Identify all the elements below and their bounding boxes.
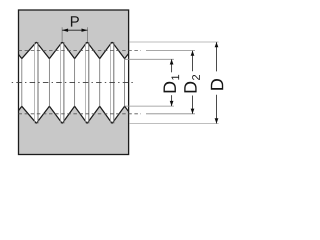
D extension line top — [129, 41, 218, 43]
label P — [71, 16, 79, 26]
D1 extension line bottom — [125, 105, 174, 107]
bottom pitch line (dashed) — [19, 113, 142, 115]
top thread profile outline — [19, 42, 129, 58]
bore (white band with thread profile cutouts) — [19, 42, 128, 123]
D extension line bottom — [129, 123, 218, 125]
label D — [211, 79, 223, 90]
D2 extension line bottom — [146, 113, 195, 115]
label D1 — [164, 82, 176, 93]
bottom thread profile outline — [19, 106, 129, 123]
crest lines across bore (single, at tooth tips) — [22, 59, 125, 107]
D2 extension line top — [146, 50, 195, 52]
P dimension line — [62, 29, 87, 31]
P dimension extension lines — [62, 27, 87, 42]
label D2 — [184, 82, 196, 93]
nut block (sectioned body) — [19, 10, 129, 155]
top pitch line (dashed) — [19, 50, 142, 52]
root line pairs across bore (at groove apexes) — [35, 42, 114, 123]
D1 extension line top — [125, 58, 174, 60]
dimension D — [216, 42, 218, 123]
dimension D1 — [171, 59, 173, 106]
centerline (dash-dot) — [12, 81, 136, 83]
dimension D2 — [192, 51, 194, 114]
